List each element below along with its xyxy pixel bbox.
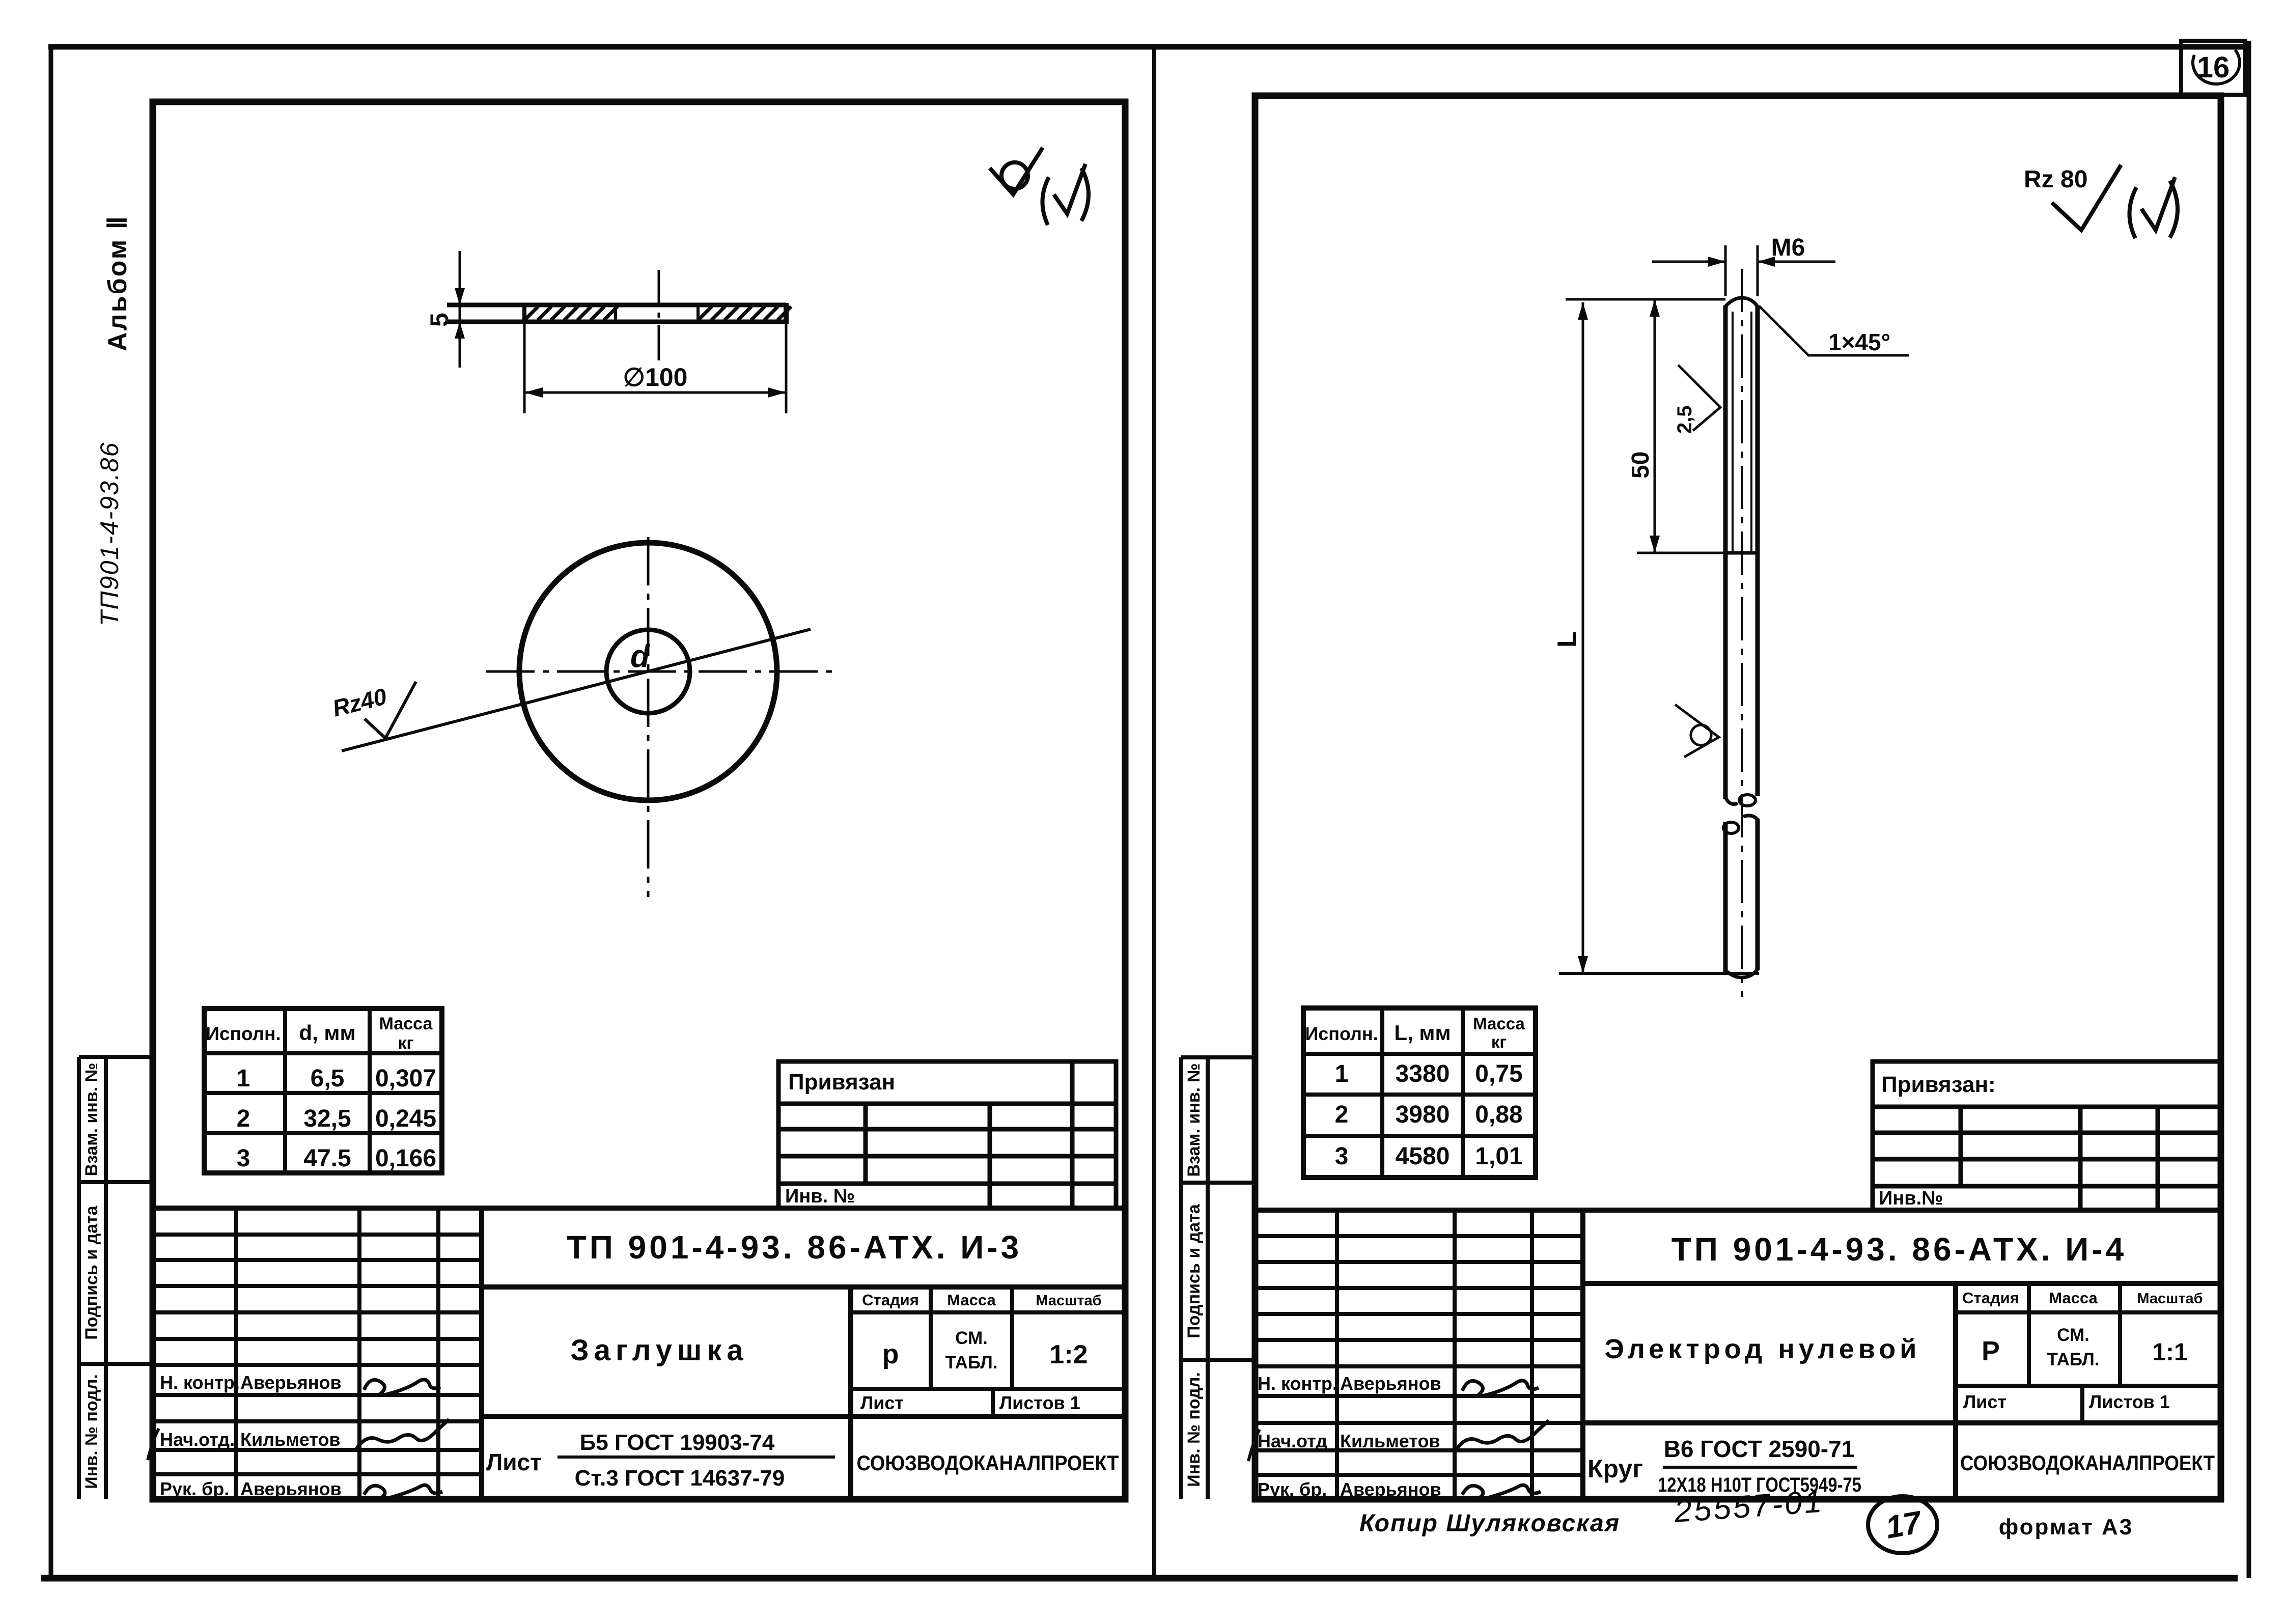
svg-text:Инв.№: Инв.№	[1879, 1188, 1943, 1209]
section centre line	[658, 270, 660, 361]
svg-text:∅100: ∅100	[623, 363, 688, 391]
svg-text:Листов 1: Листов 1	[2089, 1391, 2170, 1412]
svg-text:d: d	[630, 639, 650, 674]
svg-text:Масса: Масса	[379, 1014, 433, 1033]
svg-text:0,88: 0,88	[1475, 1101, 1522, 1128]
svg-text:СМ.: СМ.	[2057, 1325, 2089, 1345]
thread minor diameter lines	[1732, 312, 1734, 553]
outer border bottom	[41, 1575, 2238, 1582]
svg-text:1: 1	[237, 1065, 250, 1092]
svg-text:32,5: 32,5	[303, 1105, 351, 1132]
circled sheet number 17	[1868, 1496, 1937, 1553]
plug face view hole circle d	[606, 630, 690, 713]
svg-text:Аверьянов: Аверьянов	[1340, 1373, 1441, 1394]
Rz40 leader line	[342, 629, 811, 751]
svg-text:Нач.отд: Нач.отд	[1258, 1431, 1327, 1451]
svg-text:3380: 3380	[1396, 1060, 1450, 1087]
svg-text:Кильметов: Кильметов	[240, 1429, 341, 1450]
rod bottom end	[1725, 969, 1758, 977]
dimension M6	[1652, 261, 1725, 263]
plug hole edge right	[696, 305, 700, 322]
svg-text:Кильметов: Кильметов	[1340, 1431, 1440, 1451]
svg-text:СМ.: СМ.	[955, 1328, 988, 1348]
svg-text:Аверьянов: Аверьянов	[240, 1372, 342, 1393]
svg-text:ТАБЛ.: ТАБЛ.	[945, 1353, 997, 1373]
left sheet inner frame	[153, 102, 1125, 1499]
chamfer leader 1x45	[1759, 306, 1909, 355]
centre line vertical	[647, 537, 650, 897]
svg-text:d, мм: d, мм	[299, 1021, 355, 1045]
svg-text:0,75: 0,75	[1475, 1060, 1522, 1087]
svg-text:Подпись и дата: Подпись и дата	[1184, 1203, 1204, 1338]
electrode rod left edge lower	[1723, 822, 1728, 972]
svg-text:50: 50	[1627, 452, 1654, 479]
dimension 5 (thickness)	[459, 251, 461, 368]
svg-text:Рук. бр.: Рук. бр.	[160, 1478, 229, 1499]
svg-text:Привязан: Привязан	[788, 1070, 895, 1095]
roughness mark left sheet (no-removal symbol)	[990, 148, 1043, 194]
svg-text:Масса: Масса	[2049, 1289, 2098, 1307]
svg-text:Привязан:: Привязан:	[1881, 1072, 1996, 1097]
electrode rod right edge lower	[1755, 819, 1760, 970]
svg-text:5: 5	[425, 313, 454, 327]
svg-text:Ст.3 ГОСТ 14637-79: Ст.3 ГОСТ 14637-79	[575, 1466, 785, 1491]
svg-text:Масштаб: Масштаб	[1036, 1293, 1101, 1309]
svg-text:Электрод нулевой: Электрод нулевой	[1605, 1334, 1921, 1364]
svg-text:Rz 80: Rz 80	[2024, 166, 2087, 193]
plug section view top line	[447, 303, 786, 307]
outer border left	[49, 47, 53, 1579]
svg-text:3: 3	[237, 1145, 250, 1172]
outer border right	[2247, 41, 2251, 1578]
svg-text:1×45°: 1×45°	[1828, 329, 1890, 355]
thread roughness 2,5	[1678, 365, 1720, 431]
electrode rod left edge upper	[1723, 305, 1728, 799]
svg-text:формат А3: формат А3	[1999, 1515, 2134, 1539]
svg-text:3: 3	[1335, 1143, 1349, 1170]
svg-text:Взам. инв. №: Взам. инв. №	[1184, 1063, 1204, 1177]
plug section view bottom line	[447, 320, 786, 324]
svg-text:Инв. № подл.: Инв. № подл.	[1184, 1372, 1204, 1487]
electrode rod right edge upper	[1755, 305, 1760, 796]
privyazan box right	[1873, 1061, 2221, 1210]
title block left sheet	[153, 1208, 1125, 1499]
svg-text:Инв. №: Инв. №	[785, 1186, 855, 1207]
parts table right (Ispoln / L,mm / Massa kg)	[1303, 1008, 1536, 1178]
electrode top cap	[1725, 298, 1758, 306]
svg-text:2,5: 2,5	[1674, 405, 1696, 434]
rod break upper hooks	[1725, 797, 1738, 804]
dimension diam 100	[523, 322, 526, 413]
right sheet inner frame	[1255, 96, 2221, 1499]
svg-text:1:2: 1:2	[1049, 1340, 1088, 1369]
sheet separator line	[1152, 47, 1156, 1578]
svg-text:Р: Р	[1982, 1336, 2000, 1366]
svg-text:р: р	[882, 1339, 899, 1369]
svg-text:Заглушка: Заглушка	[570, 1334, 748, 1367]
centre line horizontal	[486, 670, 838, 673]
svg-text:Подпись и дата: Подпись и дата	[82, 1205, 101, 1340]
svg-text:Рук. бр.: Рук. бр.	[1258, 1479, 1327, 1500]
svg-text:СОЮЗВОДОКАНАЛПРОЕКТ: СОЮЗВОДОКАНАЛПРОЕКТ	[857, 1451, 1119, 1475]
side stamp left-sheet	[79, 1057, 153, 1499]
svg-text:М6: М6	[1771, 234, 1805, 261]
plug section right end	[784, 303, 789, 324]
svg-text:Н. контр.: Н. контр.	[160, 1372, 240, 1393]
hatch left of hole	[524, 306, 618, 320]
svg-text:4580: 4580	[1396, 1143, 1450, 1170]
svg-text:Лист: Лист	[860, 1392, 904, 1413]
svg-text:2: 2	[237, 1105, 250, 1132]
mid rod roughness symbol	[1675, 705, 1719, 757]
side stamp right-sheet	[1181, 1057, 1255, 1499]
svg-text:Круг: Круг	[1587, 1454, 1643, 1483]
svg-text:Взам. инв. №: Взам. инв. №	[82, 1062, 101, 1176]
Rz40 check symbol	[365, 682, 416, 738]
svg-text:6,5: 6,5	[311, 1065, 345, 1092]
svg-text:0,307: 0,307	[375, 1065, 436, 1092]
svg-text:Аверьянов: Аверьянов	[1340, 1479, 1441, 1500]
svg-text:Инв. № подл.: Инв. № подл.	[82, 1374, 101, 1489]
dimension L	[1582, 302, 1584, 973]
svg-text:Н. контр.: Н. контр.	[1258, 1373, 1337, 1394]
svg-text:1:1: 1:1	[2152, 1339, 2187, 1366]
svg-text:СОЮЗВОДОКАНАЛПРОЕКТ: СОЮЗВОДОКАНАЛПРОЕКТ	[1960, 1451, 2215, 1475]
svg-text:0,245: 0,245	[375, 1105, 436, 1132]
electrode centre line	[1741, 269, 1743, 997]
svg-text:2: 2	[1335, 1101, 1349, 1128]
svg-text:Лист: Лист	[486, 1449, 542, 1475]
svg-text:Листов 1: Листов 1	[999, 1392, 1080, 1413]
svg-text:Стадия: Стадия	[862, 1291, 919, 1309]
svg-text:ТП 901-4-93. 86-АТХ. И-3: ТП 901-4-93. 86-АТХ. И-3	[567, 1229, 1022, 1266]
svg-text:ТАБЛ.: ТАБЛ.	[2047, 1350, 2099, 1369]
outer border top	[48, 44, 2250, 50]
svg-text:Б5 ГОСТ 19903-74: Б5 ГОСТ 19903-74	[580, 1430, 775, 1455]
title block right sheet	[1255, 1210, 2221, 1499]
svg-text:Исполн.: Исполн.	[1305, 1023, 1378, 1044]
svg-text:0,166: 0,166	[375, 1145, 436, 1172]
svg-text:Масса: Масса	[1473, 1014, 1525, 1033]
svg-text:L, мм: L, мм	[1394, 1021, 1451, 1045]
svg-text:Нач.отд.: Нач.отд.	[160, 1429, 235, 1450]
hatch right of hole	[698, 306, 791, 320]
svg-text:Масштаб: Масштаб	[2137, 1291, 2203, 1307]
svg-text:47.5: 47.5	[303, 1145, 351, 1172]
parts table left (Ispoln / d,mm / Massa kg)	[204, 1009, 442, 1173]
svg-text:Копир Шуляковская: Копир Шуляковская	[1359, 1510, 1620, 1537]
svg-text:ТП 901-4-93. 86-АТХ. И-4: ТП 901-4-93. 86-АТХ. И-4	[1671, 1231, 2127, 1268]
svg-text:Масса: Масса	[947, 1291, 996, 1309]
dimension 50	[1654, 299, 1656, 553]
plug section left end	[522, 305, 526, 322]
svg-text:L: L	[1552, 631, 1582, 648]
thread end line	[1725, 551, 1758, 555]
(check) mark right sheet	[2129, 187, 2136, 238]
svg-text:В6 ГОСТ 2590-71: В6 ГОСТ 2590-71	[1664, 1436, 1855, 1462]
privyazan box left	[778, 1061, 1116, 1208]
svg-text:Альбом Ⅱ: Альбом Ⅱ	[103, 215, 132, 351]
svg-text:Лист: Лист	[1963, 1391, 2007, 1412]
svg-text:Стадия: Стадия	[1962, 1289, 2019, 1307]
svg-text:3980: 3980	[1396, 1101, 1450, 1128]
svg-text:1,01: 1,01	[1475, 1143, 1522, 1170]
plug hole edge left	[614, 305, 617, 322]
plug face view outer circle	[519, 543, 777, 800]
svg-text:кг: кг	[398, 1033, 413, 1053]
svg-text:Аверьянов: Аверьянов	[240, 1478, 342, 1499]
svg-text:Исполн.: Исполн.	[206, 1023, 281, 1044]
rod break lower hooks	[1723, 822, 1739, 833]
svg-text:1: 1	[1335, 1060, 1349, 1087]
page number box 16	[2181, 41, 2245, 95]
svg-text:ТП901-4-93.86: ТП901-4-93.86	[95, 442, 124, 626]
svg-text:кг: кг	[1491, 1032, 1507, 1051]
